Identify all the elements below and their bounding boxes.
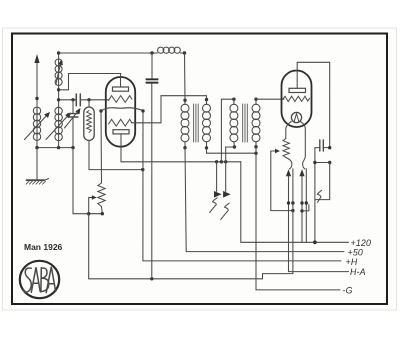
- wire R2 to jack spring left: [286, 158, 292, 169]
- node dot T1 primary feed: [183, 51, 186, 54]
- transformer T1 primary coil: [181, 100, 189, 147]
- capacitor C1 grid capacitor: [76, 94, 80, 106]
- transformer T2 primary coil: [230, 99, 238, 147]
- variometer arrow through L3: [46, 113, 71, 140]
- transformer T2 secondary coil: [252, 99, 260, 147]
- node grid line dot: [57, 98, 60, 101]
- grid V1b zigzag: [109, 119, 132, 126]
- wire +50 riser and bus: [185, 148, 344, 252]
- node dot T1 primary top: [183, 99, 186, 102]
- rheostat R4 wiper arrow: [89, 195, 97, 214]
- wire bottom tank to common: [73, 148, 102, 214]
- wire V2 filament right leg: [300, 122, 305, 170]
- wire V2 plate lead up and over: [297, 62, 330, 147]
- wire filament common bus B: [89, 214, 293, 279]
- wire pin3 bracket: [302, 205, 309, 211]
- wire T1 primary feed down: [184, 53, 187, 100]
- jack J2 pin1 with up arrow to H-A: [286, 169, 291, 271]
- coil L1 primary tuning coil: [33, 107, 40, 140]
- node dot bypass cap junction: [150, 277, 153, 280]
- wire V2 filament left leg: [286, 122, 292, 139]
- wire T2 secondary top to V2 grid: [256, 98, 284, 100]
- node dot link right: [328, 161, 331, 164]
- node filament right dot: [141, 109, 144, 112]
- jack J1 spring contact b: [221, 203, 230, 219]
- node dot T1 secondary top: [205, 98, 208, 101]
- tube V2 output triode envelope: [282, 71, 312, 128]
- node dot bypass branch: [150, 51, 153, 54]
- wire plate line bracket with spring: [316, 163, 330, 200]
- variometer arrow through L1: [25, 112, 51, 140]
- wire link: [315, 162, 330, 164]
- filament V1 arc: [101, 108, 143, 111]
- svg-text:-G: -G: [343, 286, 353, 296]
- wire +H bus: [143, 260, 341, 262]
- anode plate bar V2: [289, 88, 306, 92]
- filament V2 wire: [294, 114, 299, 122]
- jack J2 pin3 with up arrow: [299, 169, 304, 242]
- filament V2 circle: [291, 112, 301, 122]
- coil L3 secondary tuning coil: [55, 107, 62, 140]
- wire ground lead: [36, 148, 38, 180]
- jack J1 spring contact a: [210, 198, 218, 213]
- node dot T2 primary top riser: [220, 160, 223, 163]
- node dot T2 primary top: [232, 98, 235, 101]
- node dot R4 junction: [101, 212, 104, 215]
- node filament left dot: [99, 109, 102, 112]
- node antenna tap dot: [35, 97, 38, 100]
- node dot link left: [313, 161, 316, 164]
- node dot jack pin a: [215, 160, 218, 163]
- wire secondaries common: [207, 148, 257, 153]
- node dot on T2 secondary column: [254, 152, 257, 155]
- wire L2 bottom to plate feed elbow: [59, 74, 121, 90]
- coil L4 RF choke: [158, 47, 181, 53]
- anode plate bar V1b: [113, 130, 129, 134]
- node dot T1 primary bottom: [183, 146, 186, 149]
- resistor R2 output rheostat: [283, 139, 289, 158]
- ground: [26, 179, 49, 185]
- wire T2 secondary down to -G bus: [256, 147, 340, 290]
- antenna arrow: [34, 54, 39, 148]
- jack J2 pin4: [305, 169, 308, 243]
- node dot L2 bottom: [57, 88, 60, 91]
- node dot on +120 bus: [313, 240, 317, 244]
- jack J2 spring contact: [317, 190, 321, 202]
- svg-text:H-A: H-A: [350, 267, 366, 277]
- node grid leak dot: [87, 98, 90, 101]
- svg-text:+H: +H: [346, 257, 358, 267]
- wire plate V1a lead: [120, 74, 122, 88]
- transformer T1 secondary coil: [203, 100, 211, 148]
- node dot C4 right: [328, 146, 331, 149]
- wire tank bottom: [37, 147, 73, 149]
- wire plate V1b lead down: [120, 134, 122, 162]
- node dots tank bottom: [35, 146, 74, 149]
- SABA logo letter B: [41, 268, 49, 292]
- grid V1a zigzag: [109, 96, 132, 103]
- jack J1 pin b with arrow: [223, 147, 231, 198]
- capacitor C2 variable trimmer: [65, 100, 81, 148]
- resistor R3 grid leak cartridge: [84, 100, 94, 170]
- jack J1 pin a with arrow: [214, 162, 222, 198]
- wire T2 primary bottom elbow: [226, 146, 235, 148]
- tap arrow L2: [56, 60, 63, 85]
- SABA logo letter A2: [46, 267, 55, 293]
- node dot T2 primary bottom: [233, 145, 236, 148]
- wire filament right column: [142, 111, 144, 261]
- node dot jack pin b: [224, 160, 227, 163]
- SABA logo letter S: [23, 268, 31, 292]
- capacitor C4 output bypass: [315, 140, 330, 151]
- capacitor C3 bypass: [146, 53, 159, 279]
- wire filament left column to R4: [100, 111, 103, 183]
- rheostat R2 wiper arrow: [271, 149, 280, 211]
- border frame: [12, 34, 387, 305]
- wire riser to T2 primary top: [221, 99, 234, 162]
- wire wiper bracket to pin2: [271, 210, 293, 212]
- wire R4 bottom: [101, 207, 104, 214]
- node dot pin2 bracket: [291, 209, 294, 212]
- wire grid line right: [80, 99, 109, 101]
- node top wire dot: [57, 51, 60, 54]
- node dot T2 secondary top: [254, 98, 257, 101]
- wire H-A bus: [289, 271, 349, 273]
- wire grid V1b lead to T1 secondary: [132, 96, 207, 123]
- node dot on filament line: [141, 168, 144, 171]
- wire antenna coil column: [58, 53, 60, 148]
- tube V1 dual triode envelope: [106, 77, 135, 147]
- transformer T2 core: [243, 104, 248, 142]
- wire jack feed line from V1b plate: [121, 161, 241, 163]
- coil L2 antenna coupling coil: [55, 59, 62, 86]
- wire C4 left column to +120: [314, 148, 316, 243]
- wire jack line to +120 corner and bus: [241, 162, 349, 243]
- wire choke to T1: [180, 52, 184, 54]
- svg-text:Man 1926: Man 1926: [24, 242, 63, 252]
- jack J2 pin2: [291, 169, 294, 274]
- node dot T2 secondary bottom: [254, 145, 257, 148]
- wire grid leak return: [89, 169, 143, 171]
- wire grid line: [59, 99, 77, 101]
- SABA logo circle: [20, 261, 59, 298]
- node trimmer branch dot: [71, 98, 74, 101]
- node dot T1 secondary bottom: [205, 146, 208, 149]
- node dot wiper junction: [87, 212, 90, 215]
- SABA logo letter A1: [31, 267, 40, 292]
- wire top rail: [59, 52, 158, 54]
- resistor R4 filament rheostat: [98, 183, 105, 207]
- transformer T1 core: [194, 104, 199, 142]
- anode plate bar V1a: [113, 87, 129, 91]
- grid V2 zigzag: [283, 96, 310, 101]
